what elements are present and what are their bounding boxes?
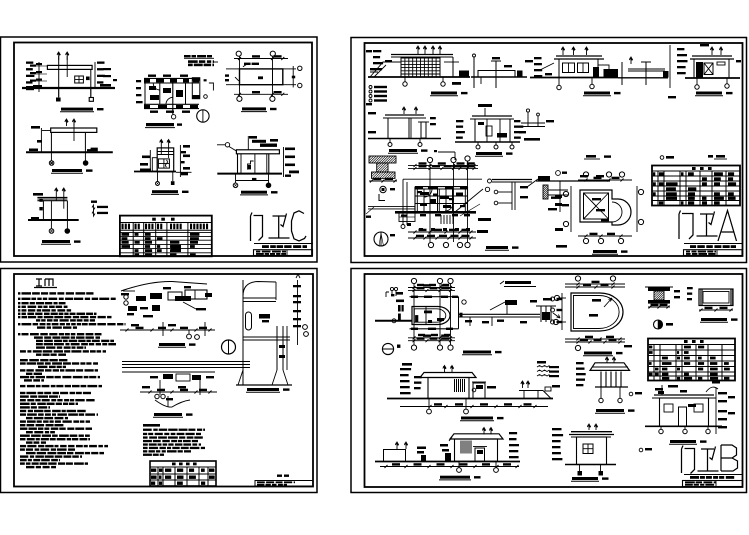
- sheet2 south elevation E left dims: [677, 48, 684, 50]
- sheet2 big outline char A: [718, 211, 737, 242]
- sheet4 pavilion roof: [590, 363, 630, 371]
- sheet2 subtitle line: [684, 243, 742, 245]
- sheet1 elevation A window: [75, 76, 84, 83]
- sheet2 fence elevation B posts: [473, 57, 475, 88]
- sheet2 plan M top dim rows: [408, 165, 478, 167]
- sheet4 plan fence under blobs: [465, 320, 472, 322]
- sheet2 gate elevation A top slab: [391, 54, 453, 56]
- sheet4 right dim column: [715, 388, 717, 434]
- sheet2 label above table left: [586, 155, 596, 158]
- sheet4 plan top dim blobs: [417, 284, 424, 286]
- sheet4 pavilion title: [596, 409, 624, 412]
- sheet3 pier elevation left edge: [242, 280, 244, 385]
- sheet2 table frame: [652, 166, 740, 206]
- sheet 3 outer frame (bottom-left): [1, 269, 318, 493]
- sheet1 table header chars: [152, 218, 156, 221]
- sheet4 elevation E4c door annex: [475, 448, 485, 461]
- sheet1 elevation A roof arrows: [57, 52, 60, 60]
- sheet2 gate elevation A left steps: [370, 62, 401, 77]
- sheet2 north elevation C body: [559, 59, 598, 78]
- sheet2 roof plan P labels: [592, 198, 601, 200]
- sheet3 canopy arc: [121, 281, 207, 291]
- sheet2 gate elevation A title: [431, 92, 457, 95]
- sheet2 gate elevation A arrows: [416, 46, 419, 54]
- sheet4 elevation E4c ground: [375, 461, 520, 463]
- sheet4 plan title: [463, 351, 491, 354]
- sheet1 plan B bottom wall: [144, 103, 199, 105]
- sheet1 section F axis feet: [235, 174, 237, 183]
- sheet4 plan left posts: [398, 305, 401, 312]
- sheet1 big outline char men: [251, 213, 263, 242]
- sheet2 plan M bottom ticks extra: [407, 223, 411, 226]
- sheet2 section I axis feet: [477, 142, 479, 146]
- sheet1 elevation A wall blob: [86, 77, 90, 81]
- sheet4 pavilion columns: [600, 372, 602, 388]
- sheet4 elevation E4a grille window: [454, 379, 456, 392]
- sheet1 table cells: [122, 233, 130, 236]
- sheet1 elevation G arrows: [55, 188, 58, 195]
- sheet1 roof plan C title: [242, 107, 266, 110]
- sheet3 canopy dim row: [120, 329, 215, 331]
- sheet2 north elevation C title: [584, 92, 610, 95]
- sheet2 wall section H right column: [421, 122, 426, 138]
- sheet2 label above table right: [708, 155, 713, 158]
- sheet4 plan axis bubbles bottom: [411, 345, 416, 350]
- sheet1 plan B side walls: [144, 78, 146, 108]
- sheet4 plan right walls: [459, 313, 541, 315]
- sheet2 plan M mid rail: [403, 178, 482, 180]
- sheet4 hut roof: [571, 431, 612, 433]
- sheet3 pier elevation right wall: [276, 326, 278, 370]
- sheet2 plan M left wing: [368, 206, 415, 208]
- sheet2 south elevation E title: [696, 92, 722, 95]
- sheet2 wall section H title: [389, 149, 417, 152]
- sheet3 road section cluster: [163, 374, 173, 379]
- sheet2 fence segment D posts: [621, 62, 623, 85]
- sheet2 fence segment D rails: [628, 68, 665, 70]
- sheet1 section F ground: [217, 173, 282, 175]
- sheet3 road section title: [154, 413, 182, 416]
- sheet2 wall section H ground: [368, 138, 441, 140]
- sheet2 corner detail K bracket: [379, 194, 385, 201]
- sheet4 elevation E4c roof slab: [450, 434, 503, 439]
- sheet4 hut feet: [579, 465, 581, 472]
- sheet3 practice table grid: [150, 466, 216, 468]
- sheet2 corner detail K web: [377, 163, 388, 172]
- sheet2 section I title: [476, 152, 502, 155]
- sheet4 elevation E4a axis feet: [428, 399, 430, 410]
- sheet2 section I interior: [486, 126, 492, 136]
- sheet1 elevation G ground: [28, 219, 79, 221]
- sheet1 section F right dims: [283, 147, 285, 177]
- sheet4 table grid: [648, 344, 735, 346]
- sheet3 construction notes header: [143, 424, 160, 427]
- sheet2 section I ground: [455, 141, 520, 143]
- sheet2 plan M axis bubbles top: [427, 157, 432, 162]
- sheet3 practice table cells: [151, 469, 156, 472]
- sheet1 table grid rows: [120, 222, 212, 224]
- sheet4 plan body outline: [410, 296, 459, 298]
- sheet4 roof plan D shape: [571, 293, 623, 331]
- sheet2 wall section H slab: [385, 114, 424, 116]
- sheet2 north elevation C side annex: [598, 65, 609, 78]
- sheet1 elevation G left dims: [33, 193, 43, 196]
- sheet1 elevation A roof slab: [47, 65, 92, 69]
- sheet4 roof plan axis bubbles: [575, 276, 580, 281]
- sheet4 elevation E4g axis feet: [660, 426, 662, 429]
- sheet1 window detail E arrows: [160, 140, 163, 147]
- sheet2 roof plan P inner square: [584, 193, 609, 219]
- sheet1 elevation D ground: [26, 151, 113, 153]
- sheet2 roof plan P title: [593, 250, 617, 253]
- sheet1 elevation G axis feet: [50, 220, 52, 229]
- sheet1 roof plan C rect: [240, 69, 283, 85]
- sheet2 label above table mid: [666, 156, 674, 159]
- sheet2 gate elevation A right pylon: [459, 71, 469, 78]
- sheet1 roof plan C bottom dim: [234, 93, 288, 95]
- sheet1 window detail E axis feet: [157, 172, 159, 182]
- sheet2 table cells: [653, 172, 655, 175]
- sheet 1 outer frame (top-left): [1, 37, 318, 262]
- sheet2 north elevation C ground: [530, 77, 618, 79]
- sheet1 plan B note text: [184, 55, 191, 57]
- sheet4 hut body: [577, 437, 607, 465]
- sheet 1 inner frame: [14, 43, 312, 257]
- sheet3 pier elevation bottom flare: [238, 370, 288, 385]
- sheet4 plan top dim rows: [408, 287, 455, 289]
- sheet2 north elevation C roof slab: [556, 55, 602, 57]
- sheet3 notes paragraphs: [18, 292, 20, 294]
- sheet2 roof plan P outer D shape: [580, 190, 631, 225]
- sheet2 south elevation E body: [694, 59, 729, 78]
- sheet4 hut left dims: [552, 428, 562, 430]
- sheet4 plan right bubble: [462, 300, 466, 304]
- sheet1 elevation D right step: [87, 148, 97, 151]
- sheet1 elevation D arrows: [65, 119, 68, 126]
- sheet1 elevation G roof band: [37, 196, 67, 198]
- sheet2 wall detail N slab: [492, 179, 532, 181]
- sheet2 detail J label: [524, 138, 540, 141]
- sheet1 roof plan C label: [258, 76, 263, 79]
- sheet3 canopy boxes: [168, 292, 182, 300]
- sheet1 elevation D roof band: [51, 128, 97, 132]
- sheet3 pier elevation bands: [243, 297, 276, 299]
- sheet2 plan M extra interior lines: [415, 195, 468, 197]
- sheet2 north elevation C left dims: [534, 57, 542, 59]
- sheet1 roof plan C divider: [272, 69, 274, 85]
- sheet1 elevation A far right blobs: [113, 79, 117, 81]
- sheet2 gate elevation A left dims: [373, 50, 381, 52]
- sheet4 fence detail posts: [505, 300, 517, 305]
- sheet3 pier elevation dim column: [297, 280, 299, 345]
- sheet4 legend right: [537, 361, 546, 364]
- sheet4 elevation E4g windows: [664, 404, 673, 412]
- sheet1 legend rows: [92, 205, 95, 210]
- sheet4 plan axis bubbles top: [411, 278, 416, 283]
- sheet1 elevation A left dims: [26, 62, 33, 64]
- sheet1 big outline char C: [292, 211, 307, 241]
- sheet2 ramp detail O ground: [536, 180, 610, 182]
- sheet1 plan B top wall: [144, 77, 199, 79]
- sheet4 detail index circle: [654, 320, 663, 329]
- sheet4 canopy plan detail: [699, 289, 733, 306]
- sheet4 plan left ground: [375, 320, 412, 322]
- sheet3 road section dim row: [140, 391, 217, 393]
- sheet1 section F interior step: [248, 161, 254, 170]
- sheet1 plan B interior fixtures: [149, 86, 156, 90]
- sheet4 elevation E4a fence right: [519, 390, 543, 392]
- sheet1 elevation G walls: [42, 201, 44, 220]
- sheet1 section F roof slab: [236, 150, 279, 154]
- sheet4 plan left upper circles: [390, 287, 393, 290]
- sheet2 detail J rails: [521, 122, 545, 124]
- sheet1 elevation A left dim second column: [30, 65, 36, 67]
- sheet2 north elevation C axis feet: [558, 78, 560, 86]
- sheet2 south elevation E arrows: [710, 47, 713, 55]
- sheet3 pier elevation arrowhead top: [296, 274, 300, 278]
- sheet4 elevation E4c right dims: [509, 432, 517, 434]
- sheet1 elevation D title: [52, 169, 82, 172]
- sheet4 misc leader circles: [645, 448, 652, 450]
- sheet1 window detail E right dims: [179, 145, 181, 177]
- sheet2 roof plan P axis bubbles: [583, 172, 588, 177]
- sheet 4 inner frame: [365, 274, 743, 487]
- sheet1 door-window table frame: [120, 216, 212, 257]
- sheet1 section F sub line: [236, 180, 269, 182]
- sheet2 plan M axis bubbles bottom: [428, 242, 433, 247]
- sheet4 elevation E4a arrows: [443, 366, 446, 373]
- sheet4 hut ground: [565, 464, 616, 466]
- sheet2 plan M title: [486, 246, 508, 249]
- sheet2 fence elevation B dims: [504, 65, 512, 67]
- sheet1 roof plan C top dim: [234, 58, 288, 60]
- sheet2 plan M top leader: [438, 151, 455, 153]
- sheet2 wall section H dims: [430, 117, 436, 119]
- sheet3 section indicator circle: [222, 340, 236, 354]
- sheet4 table header chars: [684, 340, 688, 343]
- sheet1 window detail E title: [152, 190, 178, 193]
- sheet2 roof plan P dim rows: [578, 179, 632, 181]
- sheet4 title block box: [683, 481, 743, 487]
- sheet3 construction notes lines: [143, 429, 152, 431]
- sheet4 elevation E4g ground: [645, 425, 722, 427]
- sheet3 title bar: [255, 481, 313, 487]
- sheet4 roof plan dim rows: [565, 283, 625, 285]
- sheet2 plan M interior stair: [440, 215, 442, 224]
- sheet4 elevation E4c grille window: [460, 441, 462, 454]
- sheet2 detail J poles: [527, 112, 529, 127]
- sheet4 plan section circle: [382, 343, 393, 354]
- sheet2 corner detail K dim row: [369, 180, 397, 182]
- sheet2 north elevation C windows: [563, 63, 575, 73]
- sheet4 fence right cluster: [540, 306, 542, 322]
- sheet1 section F title: [241, 191, 267, 194]
- sheet2 section I posts: [474, 119, 476, 142]
- sheet4 hut window: [583, 444, 593, 454]
- sheet1 window detail E box: [157, 148, 174, 172]
- sheet1 roof plan C right ext: [283, 68, 296, 70]
- sheet2 fence elevation B wall: [478, 71, 515, 78]
- sheet3 pier elevation window: [246, 312, 252, 330]
- sheet2 north indicator circle: [374, 232, 388, 246]
- sheet4 plan bottom dim blobs: [418, 334, 425, 336]
- sheet4 elevation E4a right annex: [473, 383, 485, 399]
- sheet2 fence segment D ground: [618, 77, 668, 79]
- sheet3 road section layer lines: [122, 361, 250, 363]
- sheet2 south elevation E axis feet: [696, 78, 698, 85]
- sheet4 roof plan labels: [592, 299, 601, 302]
- sheet1 elevation A axis walls: [58, 56, 60, 97]
- sheet1 big outline char wei: [269, 214, 290, 239]
- sheet4 elevation E4g door: [679, 407, 687, 426]
- sheet4 plan wall poche: [411, 296, 418, 298]
- sheet1 section F columns: [237, 154, 239, 174]
- sheet4 elevation E4c arrows: [482, 428, 485, 435]
- sheet3 notes title shuoming: [36, 279, 53, 286]
- sheet2 plan M door arcs: [424, 189, 432, 197]
- sheet4 plan interior: [415, 315, 418, 322]
- sheet4 roof plan title: [584, 352, 612, 355]
- sheet2 roof plan P diagonals: [584, 193, 609, 219]
- sheet1 plan B title: [146, 123, 174, 126]
- sheet1 elevation A title: [61, 108, 93, 111]
- sheet3 practice table frame: [150, 461, 216, 486]
- sheet2 corner detail K bottom flange: [372, 172, 396, 178]
- sheet1 roof plan C left ext: [226, 68, 240, 70]
- sheet2 plan M interior blobs: [420, 192, 429, 195]
- sheet3 pier elevation blobs: [259, 314, 270, 319]
- sheet 2 inner frame: [365, 43, 743, 256]
- sheet2 ramp detail O canopy: [538, 176, 550, 181]
- sheet4 elevation E4c axis feet: [458, 462, 460, 469]
- sheet4 elevation E4c title: [440, 476, 470, 479]
- sheet3 canopy left axis circles: [124, 295, 128, 299]
- sheet4 elevation E4c dim row: [380, 466, 519, 468]
- sheet4 plan axis lines: [413, 284, 415, 345]
- sheet2 fence elevation B ground: [471, 76, 527, 78]
- sheet2 gate elevation A axis feet: [404, 77, 406, 82]
- sheet2 section I roof: [472, 115, 512, 117]
- sheet1 section F top cluster: [249, 136, 257, 139]
- sheet4 pavilion arrows: [605, 357, 608, 363]
- sheet2 table grid: [652, 170, 740, 172]
- sheet4 elevation E4a body: [428, 378, 469, 399]
- sheet4 hut arrows: [587, 424, 590, 430]
- sheet4 plan D shape: [412, 307, 450, 325]
- sheet4 subtitle line: [684, 474, 742, 476]
- sheet1 window detail E top band: [157, 151, 174, 153]
- sheet2 gate elevation A ground: [368, 76, 470, 78]
- sheet2 south elevation E roof slab: [692, 55, 732, 57]
- sheet2 axis separator line: [669, 45, 671, 88]
- sheet1 elevation D mid axis: [73, 122, 75, 141]
- sheet2 wall detail N levels: [498, 191, 512, 193]
- sheet1 elevation D walls: [50, 132, 52, 152]
- sheet3 practice table header: [172, 463, 176, 466]
- sheet4 elevation E4a left dims: [400, 368, 411, 370]
- sheet2 plan M body walls: [414, 187, 416, 212]
- sheet2 subtitle text: [690, 245, 696, 248]
- sheet1 elevation A axis feet: [58, 88, 60, 98]
- sheet3 scale label: [277, 475, 282, 477]
- sheet3 pier elevation title: [247, 388, 279, 391]
- sheet2 legend block: [369, 86, 372, 89]
- sheet1 elevation D left dims: [31, 126, 40, 129]
- sheet2 plan M bottom dim rows: [408, 231, 476, 233]
- sheet2 corner detail K circle: [380, 186, 386, 192]
- sheet4 subtitle text: [690, 476, 699, 479]
- sheet1 subtitle line: [254, 243, 313, 245]
- sheet4 coping detail dims: [648, 306, 670, 308]
- sheet2 plan M bottom wall thick: [395, 211, 476, 214]
- sheet1 section F leader circle: [225, 143, 229, 147]
- sheet2 wall section H arrows: [402, 107, 405, 114]
- sheet2 north elevation C arrows: [561, 47, 564, 55]
- sheet 4 outer frame (bottom-right): [351, 269, 747, 493]
- sheet3 pier elevation mid lines: [243, 336, 290, 338]
- sheet1 plan B bottom dim blobs: [150, 111, 158, 113]
- sheet1 elevation A right dims: [97, 62, 105, 64]
- sheet1 roof plan C note squiggle: [244, 63, 251, 65]
- sheet4 big outline char B: [721, 445, 738, 471]
- sheet4 elevation E4g top cluster: [655, 388, 663, 391]
- sheet 3 inner frame: [14, 274, 313, 487]
- sheet3 road section circles: [155, 394, 159, 398]
- sheet4 fence arrow: [553, 313, 560, 318]
- sheet1 title block box: [254, 250, 313, 256]
- sheet4 fence level circles: [551, 297, 555, 301]
- sheet1 detail circle: [197, 110, 209, 122]
- sheet1 window detail E left dims: [142, 156, 150, 159]
- sheet3 canopy axis circles bottom: [187, 334, 192, 339]
- sheet4 big outline char wei: [698, 447, 719, 472]
- sheet2 plan M axis lines: [429, 163, 431, 242]
- sheet1 elevation G title: [42, 240, 70, 243]
- sheet1 window detail E ground: [134, 171, 176, 173]
- sheet1 window detail E left annex: [152, 158, 157, 172]
- sheet2 plan M left wing circle: [401, 225, 405, 229]
- sheet2 gate elevation A grid gate: [401, 58, 440, 77]
- sheet3 road section profile: [155, 400, 190, 407]
- sheet1 table type row glyphs: [122, 224, 124, 230]
- sheet4 elevation E4c left ramp: [384, 450, 406, 462]
- sheet1 subtitle text: [262, 245, 269, 248]
- sheet1 table grid cols: [132, 223, 134, 257]
- sheet2 south elevation E door: [696, 62, 703, 78]
- sheet2 ramp detail O wall: [543, 185, 548, 199]
- sheet4 table cells: [649, 346, 652, 349]
- sheet2 big outline char men: [679, 211, 693, 240]
- sheet1 window detail E grid: [158, 159, 169, 168]
- sheet2 south elevation E ground: [685, 77, 740, 79]
- sheet4 elevation E4a roof slab: [420, 373, 476, 378]
- sheet2 corner detail K top flange: [369, 156, 396, 163]
- sheet4 elevation E4a ground: [387, 398, 553, 400]
- sheet1 elevation A ground line: [22, 87, 115, 89]
- sheet2 left hatch blobs: [555, 195, 562, 198]
- sheet3 pier elevation top arc: [243, 282, 276, 297]
- sheet1 elevation A mid axis: [66, 56, 68, 77]
- sheet4 big outline char men: [682, 446, 695, 474]
- sheet4 plan left bracket: [386, 292, 389, 297]
- sheet2 ramp detail O right blobs: [580, 175, 588, 177]
- sheet2 big outline char wei: [697, 212, 718, 237]
- sheet4 elevation E4g title: [670, 440, 696, 443]
- sheet1 table bold blob: [171, 245, 181, 252]
- sheet4 elevation E4c mid cluster: [440, 444, 448, 447]
- sheet4 pavilion legs: [600, 387, 602, 398]
- sheet1 plan B bottom axis: [172, 113, 174, 116]
